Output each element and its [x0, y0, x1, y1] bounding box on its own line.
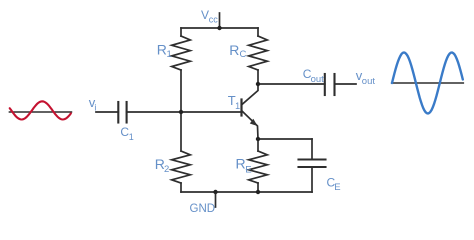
svg-text:E: E	[334, 182, 340, 193]
svg-text:cc: cc	[209, 14, 219, 24]
svg-text:R: R	[157, 42, 167, 58]
svg-text:2: 2	[164, 164, 169, 175]
svg-text:E: E	[245, 165, 251, 176]
svg-text:1: 1	[167, 49, 172, 60]
svg-text:GND: GND	[190, 203, 216, 215]
svg-text:R: R	[236, 156, 246, 172]
svg-text:1: 1	[235, 101, 240, 111]
svg-text:out: out	[362, 76, 376, 87]
svg-text:R: R	[229, 42, 239, 58]
svg-text:1: 1	[129, 132, 134, 142]
svg-text:i: i	[94, 102, 96, 112]
svg-text:out: out	[311, 74, 325, 85]
svg-text:C: C	[240, 49, 247, 60]
